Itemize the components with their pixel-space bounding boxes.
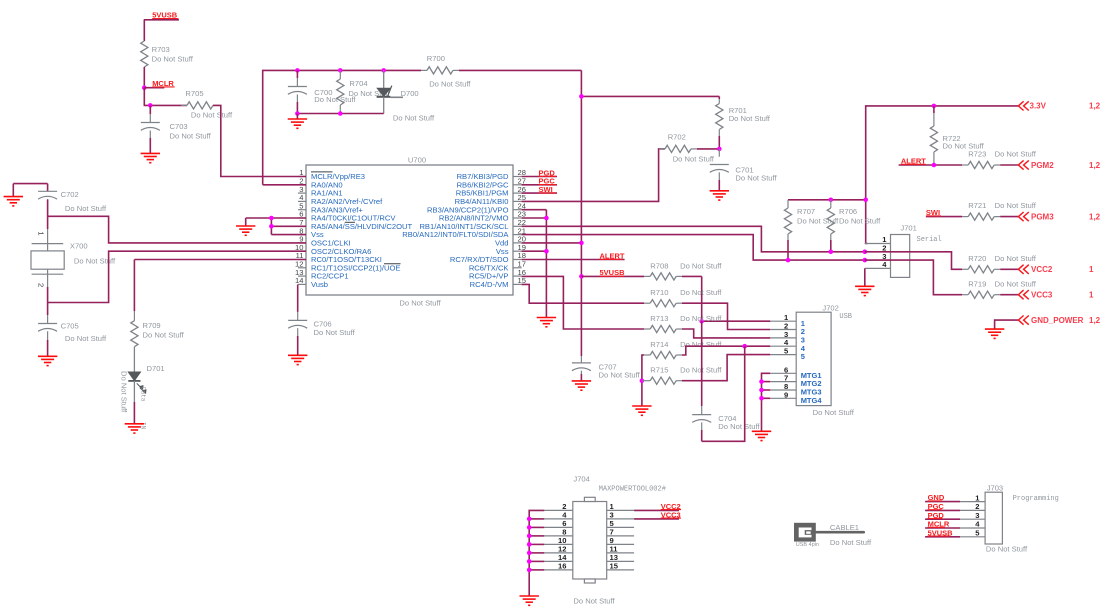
svg-text:1,2: 1,2	[1089, 212, 1101, 221]
resistor R713	[644, 314, 722, 333]
node J701 pin2	[863, 250, 868, 255]
svg-text:R703: R703	[152, 45, 170, 54]
ground C707	[572, 381, 591, 390]
svg-text:Do Not Stuff: Do Not Stuff	[429, 80, 471, 89]
node R704 top	[338, 68, 343, 73]
svg-text:Do Not Stuff: Do Not Stuff	[995, 279, 1037, 288]
svg-text:Do Not Stuff: Do Not Stuff	[729, 114, 771, 123]
svg-text:GND_POWER: GND_POWER	[1031, 316, 1084, 325]
IC U700 reference label	[408, 156, 426, 165]
svg-text:R719: R719	[968, 279, 986, 288]
svg-text:Do Not Stuff: Do Not Stuff	[995, 201, 1037, 210]
svg-text:ALERT: ALERT	[901, 157, 926, 166]
svg-text:5: 5	[801, 352, 805, 361]
svg-text:RA5/AN4/SS/HLVDIN/C2OUT: RA5/AN4/SS/HLVDIN/C2OUT	[311, 222, 412, 231]
svg-text:SWI: SWI	[926, 208, 940, 217]
svg-text:R720: R720	[968, 254, 986, 263]
node Vdd	[579, 241, 584, 246]
off-page PGM3	[1018, 212, 1100, 221]
net label PGD J703	[925, 511, 960, 520]
node J702 pin1	[699, 319, 704, 324]
svg-text:9: 9	[784, 390, 788, 399]
svg-text:1: 1	[37, 231, 46, 235]
ground GND_POWER	[985, 329, 1004, 338]
ground RB3 RB2 Vss	[537, 318, 556, 327]
svg-text:J701: J701	[900, 223, 916, 232]
svg-text:R710: R710	[650, 288, 668, 297]
capacitor C702	[38, 190, 107, 216]
svg-text:Do Not Stuff: Do Not Stuff	[120, 371, 129, 413]
svg-text:MAXPOWERTOOL002#: MAXPOWERTOOL002#	[599, 485, 666, 493]
ground C700	[288, 119, 307, 128]
wire J702 pin1 to C704	[701, 321, 703, 414]
connector J703 body	[960, 492, 1002, 544]
node 5VUSB R708	[579, 274, 584, 279]
capacitor C703	[141, 105, 212, 153]
capacitor C705	[38, 321, 107, 356]
connector J704 labels	[573, 475, 666, 606]
svg-text:Do Not Stuff: Do Not Stuff	[680, 261, 722, 270]
net label ALERT pin 18	[522, 251, 625, 260]
svg-text:16: 16	[558, 562, 566, 571]
svg-text:R704: R704	[349, 79, 367, 88]
ground D701	[125, 424, 144, 433]
svg-text:C703: C703	[170, 122, 188, 131]
net label VCC3 J704	[634, 511, 681, 520]
resistor R723	[962, 150, 1037, 169]
wire crystal to C705	[47, 303, 49, 324]
node R722 bottom	[932, 163, 937, 168]
connector J702 pin numbers	[784, 313, 789, 399]
svg-text:1,2: 1,2	[1089, 161, 1101, 170]
connector J701 labels	[900, 223, 941, 244]
svg-text:Serial: Serial	[917, 236, 942, 244]
svg-text:R705: R705	[185, 89, 203, 98]
node R715 ground	[640, 378, 645, 383]
svg-text:J704: J704	[573, 475, 589, 484]
wire R709 to D701	[133, 347, 135, 372]
svg-text:MCLR: MCLR	[928, 520, 950, 529]
svg-text:5VUSB: 5VUSB	[600, 268, 626, 277]
svg-text:Do Not Stuff: Do Not Stuff	[314, 328, 356, 337]
svg-text:3: 3	[975, 511, 979, 520]
label D701 Do Not Stuff rotated	[120, 371, 129, 413]
svg-text:Data: Data	[140, 387, 147, 402]
wire Vdd pin20	[522, 242, 582, 244]
wire C702 to crystal	[47, 216, 49, 243]
svg-text:Do Not Stuff: Do Not Stuff	[599, 371, 641, 380]
net label PGD pin 28	[522, 168, 557, 177]
node C700 top	[295, 68, 300, 73]
net label PGC J703	[925, 502, 960, 511]
svg-text:5VUSB: 5VUSB	[928, 528, 954, 537]
svg-text:R715: R715	[650, 366, 668, 375]
wire GND_POWER	[995, 320, 1019, 329]
node J701 pin3	[863, 258, 868, 263]
node RB2	[544, 216, 549, 221]
wire R707 R706 rail	[788, 199, 866, 201]
IC U700 pin numbers	[295, 168, 526, 285]
capacitor C701	[710, 149, 778, 191]
wire RB3 RB2 Vss ground	[522, 210, 547, 318]
wire J701 pin4 ground	[864, 268, 866, 286]
svg-text:15: 15	[610, 562, 619, 571]
off-page GND_POWER	[1018, 316, 1100, 325]
svg-text:Do Not Stuff: Do Not Stuff	[143, 331, 185, 340]
IC U700 pin stubs	[298, 177, 522, 285]
svg-text:R721: R721	[968, 201, 986, 210]
node 5VUSB R701 branch	[579, 94, 584, 99]
net label 5VUSB R708 row	[581, 268, 644, 277]
svg-text:3.3V: 3.3V	[1030, 102, 1047, 111]
svg-text:Do Not Stuff: Do Not Stuff	[573, 596, 615, 605]
ground C702 left	[4, 184, 23, 206]
off-page PGM2	[1018, 160, 1100, 169]
node MTG2	[759, 379, 764, 384]
node C703 junction	[148, 103, 153, 108]
svg-text:CABLE1: CABLE1	[830, 523, 859, 532]
ground R714 R715	[632, 406, 651, 415]
wire J704 even pins ground	[529, 510, 544, 596]
resistor R719	[962, 279, 1037, 298]
svg-text:Do Not Stuff: Do Not Stuff	[986, 545, 1028, 554]
wire MCLR down	[144, 88, 187, 106]
resistor R721	[962, 201, 1037, 220]
wire R713 to J702 pin3	[682, 329, 770, 338]
node D700 top	[381, 68, 386, 73]
svg-text:Do Not Stuff: Do Not Stuff	[170, 132, 212, 141]
net label GND J703	[925, 493, 960, 502]
label D701 Data IN rotated	[140, 387, 147, 430]
ground C703	[141, 153, 160, 162]
capacitor C700	[288, 70, 357, 113]
svg-text:R714: R714	[650, 340, 668, 349]
resistor R720	[962, 254, 1037, 273]
svg-text:Do Not Stuff: Do Not Stuff	[680, 288, 722, 297]
resistor R710	[644, 288, 722, 307]
resistor R722	[930, 106, 984, 165]
svg-text:1: 1	[1089, 291, 1094, 300]
svg-text:J703: J703	[987, 484, 1003, 493]
resistor R706	[827, 200, 881, 252]
ground J702 MTG	[752, 431, 771, 440]
svg-text:Do Not Stuff: Do Not Stuff	[65, 334, 107, 343]
wire C700 to ground	[296, 114, 298, 120]
wire R723 to PGM2	[1000, 164, 1018, 166]
wire 5VUSB vertical	[580, 70, 582, 363]
svg-text:1,2: 1,2	[1089, 316, 1101, 325]
resistor R708	[644, 261, 722, 280]
wire crystal to OSC2	[48, 251, 306, 302]
power net 5VUSB top-left	[144, 11, 179, 20]
wire J701 pin3 to R719	[865, 260, 962, 295]
resistor R704	[337, 70, 391, 113]
svg-text:14: 14	[295, 276, 303, 285]
connector J704 pin numbers	[558, 502, 619, 570]
svg-text:R713: R713	[650, 314, 668, 323]
svg-text:RC4/D-/VM: RC4/D-/VM	[470, 280, 509, 289]
svg-text:Do Not Stuff: Do Not Stuff	[673, 155, 715, 164]
wire J702 MTG pins	[762, 373, 771, 431]
svg-text:J702: J702	[822, 303, 838, 312]
cable CABLE1 labels	[796, 523, 872, 548]
net label MCLR	[144, 79, 174, 88]
connector J702 pin names	[801, 319, 823, 405]
svg-text:Do Not Stuff: Do Not Stuff	[74, 256, 116, 265]
svg-text:Do Not Stuff: Do Not Stuff	[399, 299, 441, 308]
off-page 3.3V	[1018, 101, 1100, 110]
wire R715 to J702 pin5	[682, 355, 770, 381]
connector J703 labels	[986, 484, 1059, 554]
ground RA4 RA5 Vss	[236, 226, 255, 235]
node R722 top	[932, 104, 937, 109]
node MTG3	[759, 388, 764, 393]
wire RA0 rail top	[263, 70, 582, 184]
connector J704 body	[544, 497, 634, 583]
wire R720 to VCC2	[1000, 268, 1018, 270]
resistor R709	[131, 311, 185, 347]
svg-text:VCC3: VCC3	[1031, 291, 1053, 300]
cable CABLE1 icon	[794, 523, 864, 542]
off-page VCC2	[1018, 265, 1094, 274]
wire R708 to J702 pin1	[682, 276, 770, 321]
IC U700 body	[306, 165, 513, 295]
svg-text:Programming: Programming	[1013, 495, 1059, 503]
svg-text:R709: R709	[143, 321, 161, 330]
wire ground to C702	[13, 184, 47, 192]
wire RB4 to R702	[522, 149, 665, 202]
wire RB0 to J701 pin3	[522, 235, 865, 261]
connector J701 body	[865, 235, 910, 278]
wire R714 to J702 pin4	[682, 346, 770, 355]
capacitor C704	[692, 414, 760, 441]
svg-text:2: 2	[975, 502, 979, 511]
wire Vusb to C706	[297, 284, 299, 320]
svg-text:C702: C702	[61, 190, 79, 199]
crystal X700	[31, 241, 116, 274]
svg-text:Do Not Stuff: Do Not Stuff	[191, 110, 233, 119]
wire R703 to MCLR node	[143, 67, 145, 88]
node RA4	[269, 216, 274, 221]
node J704 even pins	[527, 517, 532, 573]
node MTG4	[759, 396, 764, 401]
svg-text:Do Not Stuff: Do Not Stuff	[735, 174, 777, 183]
svg-text:X700: X700	[70, 241, 88, 250]
net label MCLR J703	[925, 520, 960, 529]
resistor R707	[784, 200, 839, 260]
svg-text:Do Not Stuff: Do Not Stuff	[995, 254, 1037, 263]
svg-text:Do Not Stuff: Do Not Stuff	[65, 204, 107, 213]
net label PGC pin 27	[522, 177, 557, 186]
wire D701 to ground	[133, 381, 135, 424]
net label 5VUSB J703	[925, 528, 960, 537]
svg-text:MTG4: MTG4	[801, 396, 823, 405]
net label ALERT R723	[899, 157, 963, 166]
ground C706	[288, 355, 307, 364]
connector J702 body	[770, 312, 831, 405]
svg-text:1: 1	[1089, 265, 1094, 274]
svg-text:Do Not Stuff: Do Not Stuff	[995, 150, 1037, 159]
wire J701 pin2 to R720	[865, 252, 962, 269]
svg-text:RB0/AN12/INT0/FLT0/SDI/SDA: RB0/AN12/INT0/FLT0/SDI/SDA	[402, 230, 509, 239]
svg-text:R707: R707	[797, 207, 815, 216]
svg-text:Do Not Stuff: Do Not Stuff	[839, 217, 881, 226]
svg-text:U700: U700	[408, 156, 426, 165]
wire R702 to node	[697, 148, 719, 150]
wire R701 to node	[718, 136, 720, 149]
IC U700 Do Not Stuff label	[399, 299, 441, 308]
ground C701	[710, 191, 729, 200]
node R706 bottom	[829, 250, 834, 255]
node Vss19	[544, 249, 549, 254]
connector J703 pin numbers	[975, 493, 980, 537]
node R701 C701	[717, 147, 722, 152]
resistor R705	[181, 89, 233, 119]
wire 5VUSB branch to R701	[581, 96, 719, 99]
resistor R701	[716, 99, 771, 136]
crystal pin 1 number	[37, 231, 46, 235]
resistor R714	[644, 340, 722, 359]
wire ground to R714	[642, 355, 644, 406]
svg-text:R702: R702	[668, 133, 686, 142]
wire R710 to J702 pin2	[682, 303, 770, 329]
wire 5VUSB to R703	[143, 20, 145, 41]
node R704 bottom	[338, 111, 343, 116]
ground J701	[855, 286, 874, 295]
wire RC5 pin16	[522, 276, 644, 329]
wire RC4 pin15	[522, 284, 644, 303]
diode D700	[377, 70, 435, 122]
svg-text:SWI: SWI	[539, 185, 553, 194]
wire R721 to PGM3	[1000, 216, 1018, 218]
capacitor C707	[572, 362, 641, 381]
svg-text:MCLR: MCLR	[152, 79, 174, 88]
wire RB1 to J701 pin2	[522, 226, 865, 252]
svg-text:VCC2: VCC2	[1031, 265, 1053, 274]
node MCLR junction	[142, 85, 147, 90]
svg-text:Vusb: Vusb	[311, 280, 328, 289]
resistor R715	[642, 366, 722, 385]
svg-text:GND: GND	[928, 493, 945, 502]
svg-text:R706: R706	[839, 207, 857, 216]
svg-text:PGM2: PGM2	[1031, 161, 1054, 170]
svg-text:Do Not Stuff: Do Not Stuff	[152, 55, 194, 64]
svg-text:USB 4pin: USB 4pin	[796, 542, 819, 548]
capacitor C706	[288, 320, 355, 356]
svg-text:USB: USB	[839, 313, 852, 321]
node R714 C704	[742, 344, 747, 349]
wire R705 to pin 1	[213, 105, 306, 176]
ground J704	[520, 596, 539, 605]
net label SWI R721	[926, 208, 962, 217]
crystal pin 2 number	[37, 283, 46, 287]
node rail 3p3V	[863, 198, 868, 203]
connector J702 labels	[813, 303, 855, 417]
wire C702 to OSC1	[48, 200, 306, 243]
wire C700 bottom rail	[297, 113, 383, 115]
wire RC0 to R709	[134, 260, 306, 312]
net label SWI pin 26	[522, 185, 557, 194]
svg-text:PGC: PGC	[928, 502, 945, 511]
node R707 bottom	[786, 258, 791, 263]
node C700 bottom	[295, 111, 300, 116]
svg-text:D700: D700	[401, 89, 419, 98]
off-page VCC3	[1018, 290, 1094, 299]
svg-text:R708: R708	[650, 261, 668, 270]
svg-text:ALERT: ALERT	[600, 251, 625, 260]
svg-text:R700: R700	[427, 54, 445, 63]
resistor R700	[421, 54, 471, 89]
svg-text:Do Not Stuff: Do Not Stuff	[830, 538, 872, 547]
svg-text:Do Not Stuff: Do Not Stuff	[718, 422, 760, 431]
wire 3p3V rail	[866, 106, 1019, 244]
wire RA4 RA5 Vss ground	[246, 218, 306, 235]
svg-text:Do Not Stuff: Do Not Stuff	[813, 408, 855, 417]
resistor R703	[141, 41, 194, 67]
svg-text:PGM3: PGM3	[1031, 212, 1054, 221]
svg-text:2: 2	[37, 283, 46, 287]
svg-text:Do Not Stuff: Do Not Stuff	[393, 114, 435, 123]
node R706 top	[829, 198, 834, 203]
svg-text:PGD: PGD	[928, 511, 945, 520]
svg-text:VCC3: VCC3	[661, 511, 681, 520]
node RA5	[269, 224, 274, 229]
svg-text:5VUSB: 5VUSB	[152, 11, 178, 20]
svg-text:C705: C705	[61, 321, 79, 330]
net label VCC2 J704	[634, 502, 681, 511]
svg-text:D701: D701	[147, 364, 165, 373]
svg-text:R723: R723	[968, 150, 986, 159]
wire C704 to R714 node	[702, 346, 745, 441]
wire R719 to VCC3	[1000, 294, 1018, 296]
IC U700 pin name labels	[311, 172, 509, 289]
svg-text:1,2: 1,2	[1089, 102, 1101, 111]
ground C705	[38, 356, 57, 365]
resistor R702	[659, 133, 715, 164]
connector J701 pin numbers	[882, 235, 887, 269]
LED D701	[128, 364, 164, 393]
